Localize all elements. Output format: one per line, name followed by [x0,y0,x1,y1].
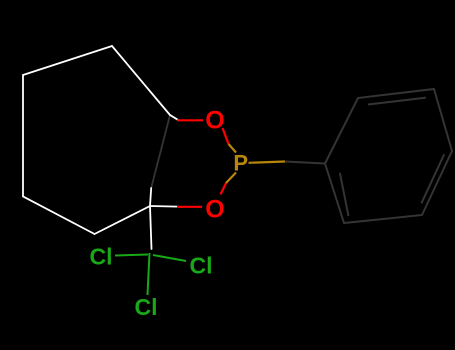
svg-text:Cl: Cl [90,244,113,270]
svg-text:Cl: Cl [135,294,158,320]
svg-text:O: O [205,107,224,135]
svg-text:P: P [233,150,248,175]
svg-text:Cl: Cl [190,253,213,279]
svg-text:O: O [205,196,224,224]
